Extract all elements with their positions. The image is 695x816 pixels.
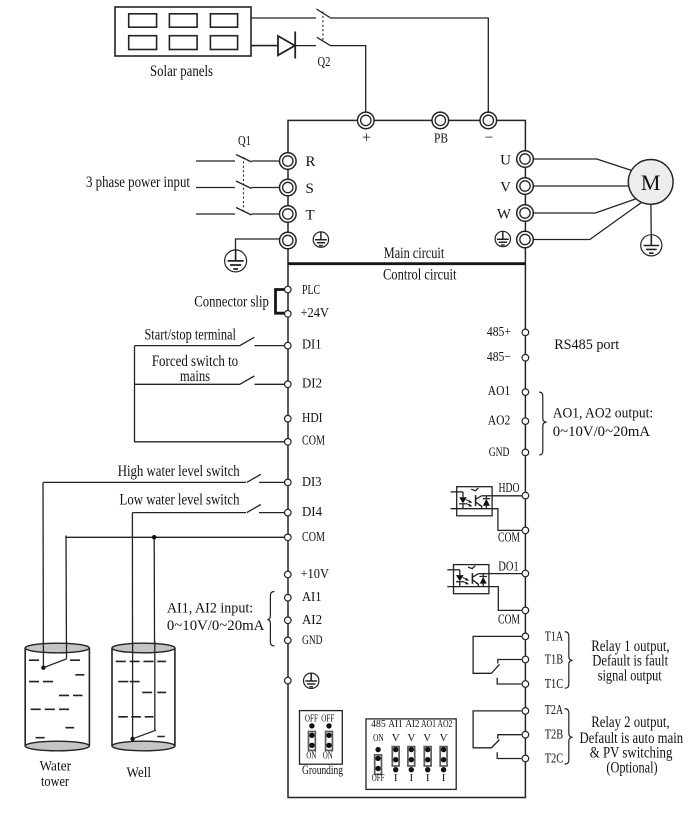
terminal S: [280, 179, 297, 196]
DIP switch AO1: [424, 747, 431, 773]
wire: DI1/DI2 return bus to COM: [135, 346, 285, 442]
wire: optocoupler to DO1 terminal: [489, 573, 522, 575]
terminal 485-: [522, 354, 529, 361]
svg-text:0~10V/0~20mA: 0~10V/0~20mA: [167, 618, 265, 634]
grounding switch 2: [326, 723, 333, 750]
DIP switch 485: [375, 747, 382, 774]
svg-text:Q2: Q2: [318, 55, 331, 70]
terminal PE left: [280, 232, 297, 249]
svg-text:485−: 485−: [487, 349, 511, 364]
wire: DO1 return to COM: [489, 587, 522, 611]
svg-text:M: M: [641, 170, 661, 195]
water tower level dashes: [29, 660, 84, 738]
svg-text:+24V: +24V: [301, 305, 330, 320]
svg-text:Grounding: Grounding: [302, 763, 344, 777]
svg-text:AO1: AO1: [488, 383, 511, 398]
relay 1 contact arm: [491, 664, 499, 673]
svg-text:signal output: signal output: [598, 667, 663, 684]
svg-text:+: +: [362, 130, 371, 147]
breaker Q1 pole S: [196, 181, 279, 189]
well tank: [112, 643, 175, 751]
svg-text:ON: ON: [323, 750, 333, 761]
wire: DI3 down to water tower float: [42, 482, 44, 667]
svg-text:T1B: T1B: [545, 651, 564, 666]
relay 1 wire T1B with stub: [498, 660, 522, 664]
wire: DI4 down to well float: [131, 513, 133, 739]
well float switch wires into tank: [133, 641, 155, 739]
terminal DI1: [285, 342, 292, 349]
relay 2 wire T2B with stub: [498, 735, 522, 739]
relay 2 contact arm: [491, 740, 499, 749]
wire: COM to tank switches: [66, 536, 285, 538]
svg-text:HDO: HDO: [499, 480, 520, 495]
breaker Q1 pole T: [196, 208, 279, 216]
svg-text:Connector slip: Connector slip: [194, 294, 269, 311]
divider line between main and control circuit: [288, 262, 525, 265]
svg-text:High water level switch: High water level switch: [118, 463, 240, 480]
wire PE to motor frame: [533, 203, 641, 240]
terminal U: [517, 151, 534, 168]
wire: Q2 pole 1 to minus terminal: [330, 18, 489, 112]
svg-text:T2C: T2C: [545, 750, 564, 765]
terminal PE control: [285, 677, 292, 684]
svg-text:GND: GND: [302, 633, 323, 647]
terminal AI2: [285, 617, 292, 624]
terminal DI2: [285, 381, 292, 388]
svg-text:Relay 2 output,: Relay 2 output,: [591, 714, 669, 731]
junction node on COM wire: [152, 535, 157, 540]
water tower tank: [25, 643, 89, 751]
terminal HDO: [522, 492, 529, 499]
terminal COM 2: [285, 534, 292, 541]
svg-text:DI2: DI2: [302, 376, 322, 391]
brace for AI1/AI2 input range: [267, 592, 274, 647]
switch to DI4: wire and arm: [132, 505, 284, 513]
svg-text:DI3: DI3: [302, 474, 322, 489]
terminal HDI: [285, 415, 292, 422]
motor M1: [628, 160, 673, 205]
svg-text:R: R: [306, 154, 316, 170]
terminal COM 1: [285, 439, 292, 446]
wire: optocoupler return to COM: [492, 509, 522, 531]
terminal T2B: [522, 731, 529, 738]
svg-text:Start/stop terminal: Start/stop terminal: [144, 326, 236, 343]
terminal R: [280, 153, 297, 170]
svg-text:AO1, AO2 output:: AO1, AO2 output:: [553, 405, 654, 421]
breaker Q1 pole R: wire, arm: [196, 155, 279, 163]
terminal PLC: [285, 286, 292, 293]
svg-text:DO1: DO1: [498, 559, 519, 574]
terminal + (DC bus): [358, 112, 375, 129]
grounding DIP switch block: [300, 711, 343, 765]
switch to DI1: wire and arm: [135, 337, 285, 345]
terminal +24V: [285, 311, 292, 318]
svg-text:OFF: OFF: [372, 772, 385, 784]
wire: diode cathode to Q2 pole 2: [295, 45, 316, 47]
wire: diode anode from panel bottom output: [251, 45, 278, 47]
wire V to motor: [533, 185, 628, 187]
terminal T1C: [522, 681, 529, 688]
svg-text:V: V: [407, 732, 415, 744]
wire: COM junction down to well float: [153, 537, 156, 730]
well float switch contact: [130, 737, 134, 741]
svg-text:Q1: Q1: [238, 134, 251, 149]
svg-text:DI1: DI1: [302, 337, 322, 352]
motor earth electrode: [641, 235, 662, 256]
svg-text:AI1: AI1: [388, 718, 403, 730]
brace for AO1/AO2 output: [539, 392, 546, 455]
wire: Q2 pole 2 to plus terminal: [330, 46, 366, 112]
svg-text:RS485 port: RS485 port: [554, 337, 619, 353]
svg-text:ON: ON: [373, 732, 384, 744]
svg-text:+10V: +10V: [301, 566, 330, 581]
svg-text:−: −: [485, 130, 493, 146]
ground symbol inside box (right): [495, 231, 510, 246]
wire: COM down to water tower float: [65, 536, 68, 659]
svg-text:Well: Well: [127, 765, 152, 781]
water tower float switch contact: [41, 666, 45, 670]
water tower float switch: wires into tank: [43, 641, 66, 668]
svg-text:AI2: AI2: [405, 718, 419, 730]
svg-text:OFF: OFF: [321, 713, 334, 724]
svg-text:GND: GND: [489, 445, 510, 459]
svg-text:COM: COM: [498, 530, 520, 545]
wire: optocoupler to HDO terminal: [492, 495, 522, 497]
svg-text:Solar panels: Solar panels: [150, 63, 213, 80]
switch to DI3: wire and arm: [43, 474, 285, 482]
svg-text:T: T: [306, 208, 315, 224]
terminal PB: [432, 112, 449, 129]
svg-text:I: I: [394, 772, 398, 784]
svg-text:Control circuit: Control circuit: [383, 267, 457, 284]
wire W to motor: [533, 199, 637, 214]
terminal AO2: [522, 418, 529, 425]
wire: panel top output to Q2 pole 1: [251, 17, 316, 19]
svg-text:I: I: [426, 772, 430, 784]
external ground electrode (circle): [225, 250, 247, 272]
terminal DI4: [285, 509, 292, 516]
svg-text:I: I: [442, 772, 446, 784]
svg-text:Main circuit: Main circuit: [384, 245, 445, 262]
DIP switch AO2: [440, 747, 447, 773]
connector slip jumper bar: [276, 290, 285, 314]
svg-text:AI2: AI2: [302, 612, 322, 627]
breaker Q2 pole 2 arm: [317, 37, 330, 45]
terminal GND analog: [285, 637, 292, 644]
relay 1 wire T1C with stub: [497, 678, 521, 684]
terminal 485+: [522, 329, 529, 336]
svg-text:COM: COM: [302, 529, 325, 544]
svg-text:AO1: AO1: [421, 718, 436, 730]
svg-text:V: V: [392, 732, 400, 744]
svg-text:485: 485: [371, 718, 386, 730]
terminal - (DC bus): [480, 112, 497, 129]
svg-text:AI1, AI2 input:: AI1, AI2 input:: [167, 601, 253, 617]
svg-text:PB: PB: [434, 132, 448, 147]
well level dashes: [116, 661, 166, 736]
terminal AI1: [285, 594, 292, 601]
terminal DO1: [522, 570, 529, 577]
svg-text:3 phase power input: 3 phase power input: [86, 174, 191, 191]
wire: PE terminal to external ground: [236, 239, 280, 250]
Q1 gang link (dotted): [243, 157, 245, 212]
terminal W: [517, 205, 534, 222]
svg-text:AO2: AO2: [437, 718, 452, 730]
terminal T1B: [522, 656, 529, 663]
svg-text:I: I: [409, 772, 413, 784]
relay 2 wire T2A: [473, 711, 521, 748]
svg-text:PLC: PLC: [302, 282, 320, 297]
svg-text:V: V: [440, 732, 448, 744]
svg-text:Low water level switch: Low water level switch: [120, 492, 240, 509]
svg-text:T2B: T2B: [545, 727, 564, 742]
switch to DI2: wire and arm: [135, 376, 285, 384]
svg-text:T1A: T1A: [545, 629, 564, 644]
brace for relay 2: [565, 709, 573, 765]
svg-text:AI1: AI1: [302, 589, 322, 604]
terminal AO1: [522, 389, 529, 396]
breaker Q2 pole 1 arm: [316, 9, 330, 18]
svg-text:COM: COM: [498, 612, 520, 627]
brace for relay 1: [565, 632, 573, 689]
terminal T1A: [522, 633, 529, 640]
relay 2 wire T2C with stub: [497, 752, 521, 758]
terminal +10V: [285, 571, 292, 578]
svg-text:mains: mains: [180, 368, 210, 385]
signal DIP switch block: [366, 719, 456, 790]
svg-text:0~10V/0~20mA: 0~10V/0~20mA: [553, 424, 651, 440]
inverter enclosure box: [288, 120, 525, 797]
DIP switch AI1: [392, 747, 399, 773]
terminal PE right: [517, 231, 534, 248]
svg-text:V: V: [423, 732, 431, 744]
svg-text:OFF: OFF: [305, 713, 318, 724]
svg-text:COM: COM: [302, 433, 325, 448]
relay 1 wire T1A: [473, 636, 521, 673]
svg-text:T2A: T2A: [545, 702, 564, 717]
wire: motor to earth: [650, 204, 652, 235]
svg-text:S: S: [306, 181, 314, 197]
svg-text:485+: 485+: [487, 324, 511, 339]
terminal T2C: [522, 755, 529, 762]
terminal GND right: [522, 449, 529, 456]
svg-text:T1C: T1C: [545, 676, 564, 691]
svg-text:U: U: [500, 153, 511, 169]
optocoupler HDO: [451, 487, 493, 516]
svg-text:V: V: [500, 180, 511, 196]
terminal T: [280, 206, 297, 223]
terminal T2A: [522, 708, 529, 715]
svg-text:ON: ON: [306, 750, 316, 761]
svg-text:W: W: [497, 207, 512, 223]
ground symbol inside box (left): [313, 232, 328, 247]
solar panel array: [115, 7, 251, 56]
svg-text:tower: tower: [41, 774, 69, 790]
terminal COM (HDO): [522, 527, 529, 534]
optocoupler DO1: [447, 565, 489, 594]
svg-text:Water: Water: [40, 759, 72, 775]
svg-text:AO2: AO2: [488, 413, 511, 428]
wire U to motor: [533, 159, 632, 171]
svg-text:DI4: DI4: [302, 504, 322, 519]
Q2 gang link (dotted): [322, 12, 324, 43]
svg-text:HDI: HDI: [302, 410, 323, 425]
terminal V: [517, 178, 534, 195]
svg-text:(Optional): (Optional): [606, 759, 657, 776]
ground symbol near control PE: [304, 673, 319, 688]
diode D1: [278, 32, 295, 59]
terminal COM (DO1): [522, 607, 529, 614]
DIP switch AI2: [408, 747, 415, 773]
grounding switch 1: [309, 723, 316, 750]
terminal DI3: [285, 479, 292, 486]
